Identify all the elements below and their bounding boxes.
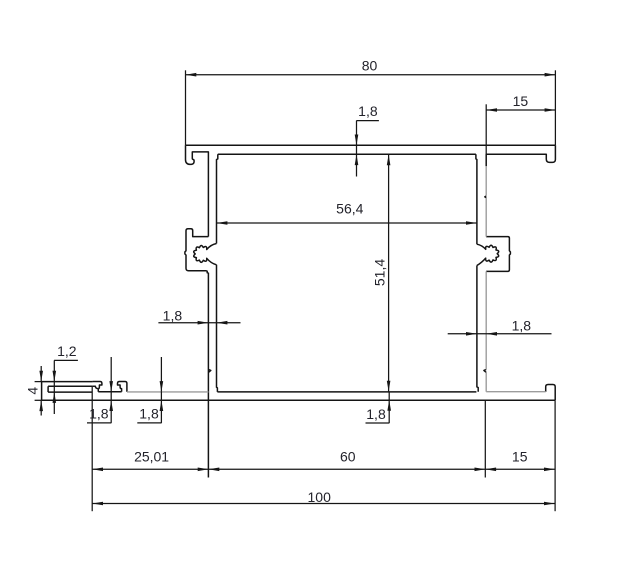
svg-text:1,8: 1,8 — [139, 405, 159, 421]
svg-text:1,8: 1,8 — [163, 308, 183, 324]
svg-text:1,2: 1,2 — [57, 343, 77, 359]
svg-text:60: 60 — [340, 448, 356, 464]
svg-text:1,8: 1,8 — [512, 318, 532, 334]
svg-text:1,8: 1,8 — [89, 405, 109, 421]
svg-text:15: 15 — [513, 93, 529, 109]
svg-text:25,01: 25,01 — [134, 448, 169, 464]
svg-text:51,4: 51,4 — [372, 259, 388, 286]
svg-text:15: 15 — [512, 448, 528, 464]
svg-text:100: 100 — [308, 489, 332, 505]
svg-text:1,8: 1,8 — [366, 406, 386, 422]
svg-text:80: 80 — [362, 58, 378, 74]
svg-text:4: 4 — [25, 387, 41, 395]
svg-text:1,8: 1,8 — [358, 103, 378, 119]
svg-text:56,4: 56,4 — [336, 201, 363, 217]
